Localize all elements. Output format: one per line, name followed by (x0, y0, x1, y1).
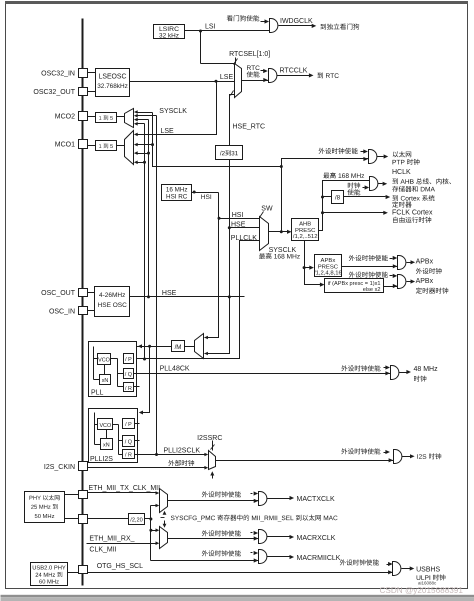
svg-text:xN: xN (103, 443, 110, 449)
svg-text:APBx: APBx (416, 259, 434, 266)
svg-text:I2S_CKIN: I2S_CKIN (44, 464, 75, 471)
svg-text:IWDGCLK: IWDGCLK (280, 18, 313, 25)
svg-text:HSI RC: HSI RC (166, 194, 188, 201)
svg-text:CLK_MII: CLK_MII (89, 547, 116, 554)
svg-text:48 MHz: 48 MHz (414, 366, 439, 373)
svg-text:PLLI2SCLK: PLLI2SCLK (164, 448, 201, 455)
svg-text:HSI: HSI (201, 194, 212, 201)
svg-text:LSE: LSE (220, 74, 234, 81)
svg-text:HSE_RTC: HSE_RTC (233, 124, 266, 131)
svg-text:MACRMIICLK: MACRMIICLK (297, 555, 341, 562)
svg-text:LSE: LSE (161, 128, 175, 135)
svg-text:ETH_MII_TX_CLK_MII: ETH_MII_TX_CLK_MII (89, 485, 161, 492)
svg-text:RTCSEL[1:0]: RTCSEL[1:0] (229, 51, 270, 58)
svg-text:FCLK Cortex: FCLK Cortex (392, 210, 433, 217)
svg-text:HSE OSC: HSE OSC (98, 302, 128, 309)
svg-text:/ R: / R (125, 386, 132, 392)
svg-text:HSI: HSI (232, 212, 244, 219)
svg-text:MCO2: MCO2 (55, 114, 75, 121)
svg-text:APBx: APBx (321, 258, 336, 264)
svg-text:60 MHz: 60 MHz (39, 580, 59, 586)
svg-text:/ R: / R (125, 453, 132, 459)
svg-text:AHB: AHB (299, 222, 311, 228)
svg-text:/ Q: / Q (125, 440, 132, 446)
svg-text:4-26MHz: 4-26MHz (99, 292, 125, 299)
svg-text:VCO: VCO (99, 423, 111, 429)
svg-text:PLLCLK: PLLCLK (231, 235, 257, 242)
svg-text:32 kHz: 32 kHz (159, 33, 179, 40)
svg-text:PLL: PLL (91, 390, 104, 397)
svg-text:ai16088c: ai16088c (418, 581, 437, 586)
svg-text:MCO1: MCO1 (55, 142, 75, 149)
svg-text:OSC_IN: OSC_IN (49, 308, 75, 315)
svg-text:MACTXCLK: MACTXCLK (297, 496, 335, 503)
svg-text:/1,2,4,8,16: /1,2,4,8,16 (314, 271, 343, 277)
svg-text:LSEOSC: LSEOSC (99, 73, 127, 80)
svg-text:/1,2,..512: /1,2,..512 (293, 234, 318, 240)
svg-text:RTCCLK: RTCCLK (280, 67, 308, 74)
svg-text:RTC: RTC (247, 65, 261, 72)
svg-text:USB2.0 PHY: USB2.0 PHY (32, 566, 66, 572)
svg-text:USBHS: USBHS (416, 567, 440, 574)
svg-text:SYSCLK: SYSCLK (159, 108, 187, 115)
svg-text:OTG_HS_SCL: OTG_HS_SCL (97, 563, 143, 570)
svg-text:/M: /M (175, 344, 182, 351)
svg-text:OSC_OUT: OSC_OUT (41, 290, 76, 297)
svg-text:HSE: HSE (162, 290, 177, 297)
svg-text:/ P: / P (125, 357, 132, 363)
svg-text:SYSCLK: SYSCLK (269, 247, 297, 254)
svg-text:PRESC: PRESC (295, 228, 316, 234)
svg-text:CSDN @y2015688391: CSDN @y2015688391 (380, 586, 464, 595)
svg-text:50 MHz: 50 MHz (35, 514, 55, 520)
svg-text:PRESC: PRESC (318, 264, 339, 270)
svg-text:32.768kHz: 32.768kHz (97, 83, 128, 90)
svg-text:LSI: LSI (205, 23, 216, 30)
svg-text:APBx: APBx (416, 278, 434, 285)
svg-text:else x2: else x2 (363, 287, 381, 293)
svg-text:I2SSRC: I2SSRC (197, 435, 222, 442)
svg-text:OSC32_OUT: OSC32_OUT (33, 89, 75, 96)
svg-text:/8: /8 (335, 195, 341, 202)
svg-text:/ Q: / Q (125, 372, 132, 378)
svg-text:PLLI2S: PLLI2S (90, 456, 113, 463)
svg-text:16 MHz: 16 MHz (166, 186, 188, 193)
svg-text:/ P: / P (125, 422, 132, 428)
svg-text:MACRXCLK: MACRXCLK (297, 535, 336, 542)
svg-text:OSC32_IN: OSC32_IN (41, 71, 75, 78)
svg-text:ETH_MII_RX_: ETH_MII_RX_ (89, 536, 134, 543)
svg-text:HCLK: HCLK (392, 169, 411, 176)
svg-text:PLL48CK: PLL48CK (160, 366, 190, 373)
svg-text:VCO: VCO (98, 358, 110, 364)
svg-text:xN: xN (102, 378, 109, 384)
svg-text:/2,20: /2,20 (130, 518, 142, 524)
